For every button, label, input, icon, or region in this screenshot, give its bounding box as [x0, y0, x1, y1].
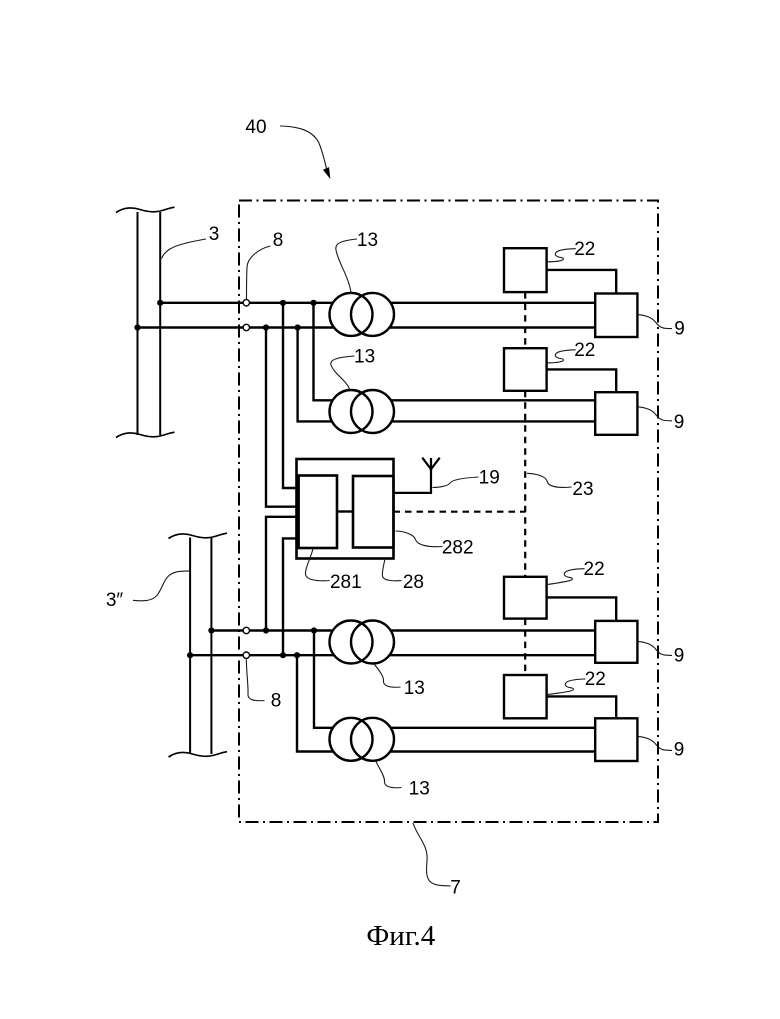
svg-text:281: 281	[330, 572, 362, 593]
svg-text:23: 23	[572, 479, 593, 500]
svg-text:282: 282	[442, 538, 474, 559]
svg-text:8: 8	[273, 230, 284, 251]
svg-text:9: 9	[674, 319, 685, 340]
svg-text:13: 13	[404, 678, 425, 699]
svg-text:13: 13	[354, 347, 375, 368]
svg-text:22: 22	[585, 669, 606, 690]
svg-text:19: 19	[479, 468, 500, 489]
svg-text:22: 22	[574, 340, 595, 361]
svg-text:40: 40	[245, 117, 266, 138]
svg-text:13: 13	[409, 779, 430, 800]
svg-text:28: 28	[403, 572, 424, 593]
svg-text:9: 9	[674, 412, 685, 433]
svg-text:3: 3	[209, 224, 220, 245]
svg-text:22: 22	[574, 239, 595, 260]
svg-text:9: 9	[674, 646, 685, 667]
svg-text:13: 13	[357, 230, 378, 251]
svg-text:22: 22	[584, 559, 605, 580]
svg-text:9: 9	[674, 740, 685, 761]
svg-text:3″: 3″	[106, 590, 124, 611]
svg-text:Фиг.4: Фиг.4	[366, 920, 435, 952]
svg-text:7: 7	[450, 878, 461, 899]
svg-text:8: 8	[271, 691, 282, 712]
